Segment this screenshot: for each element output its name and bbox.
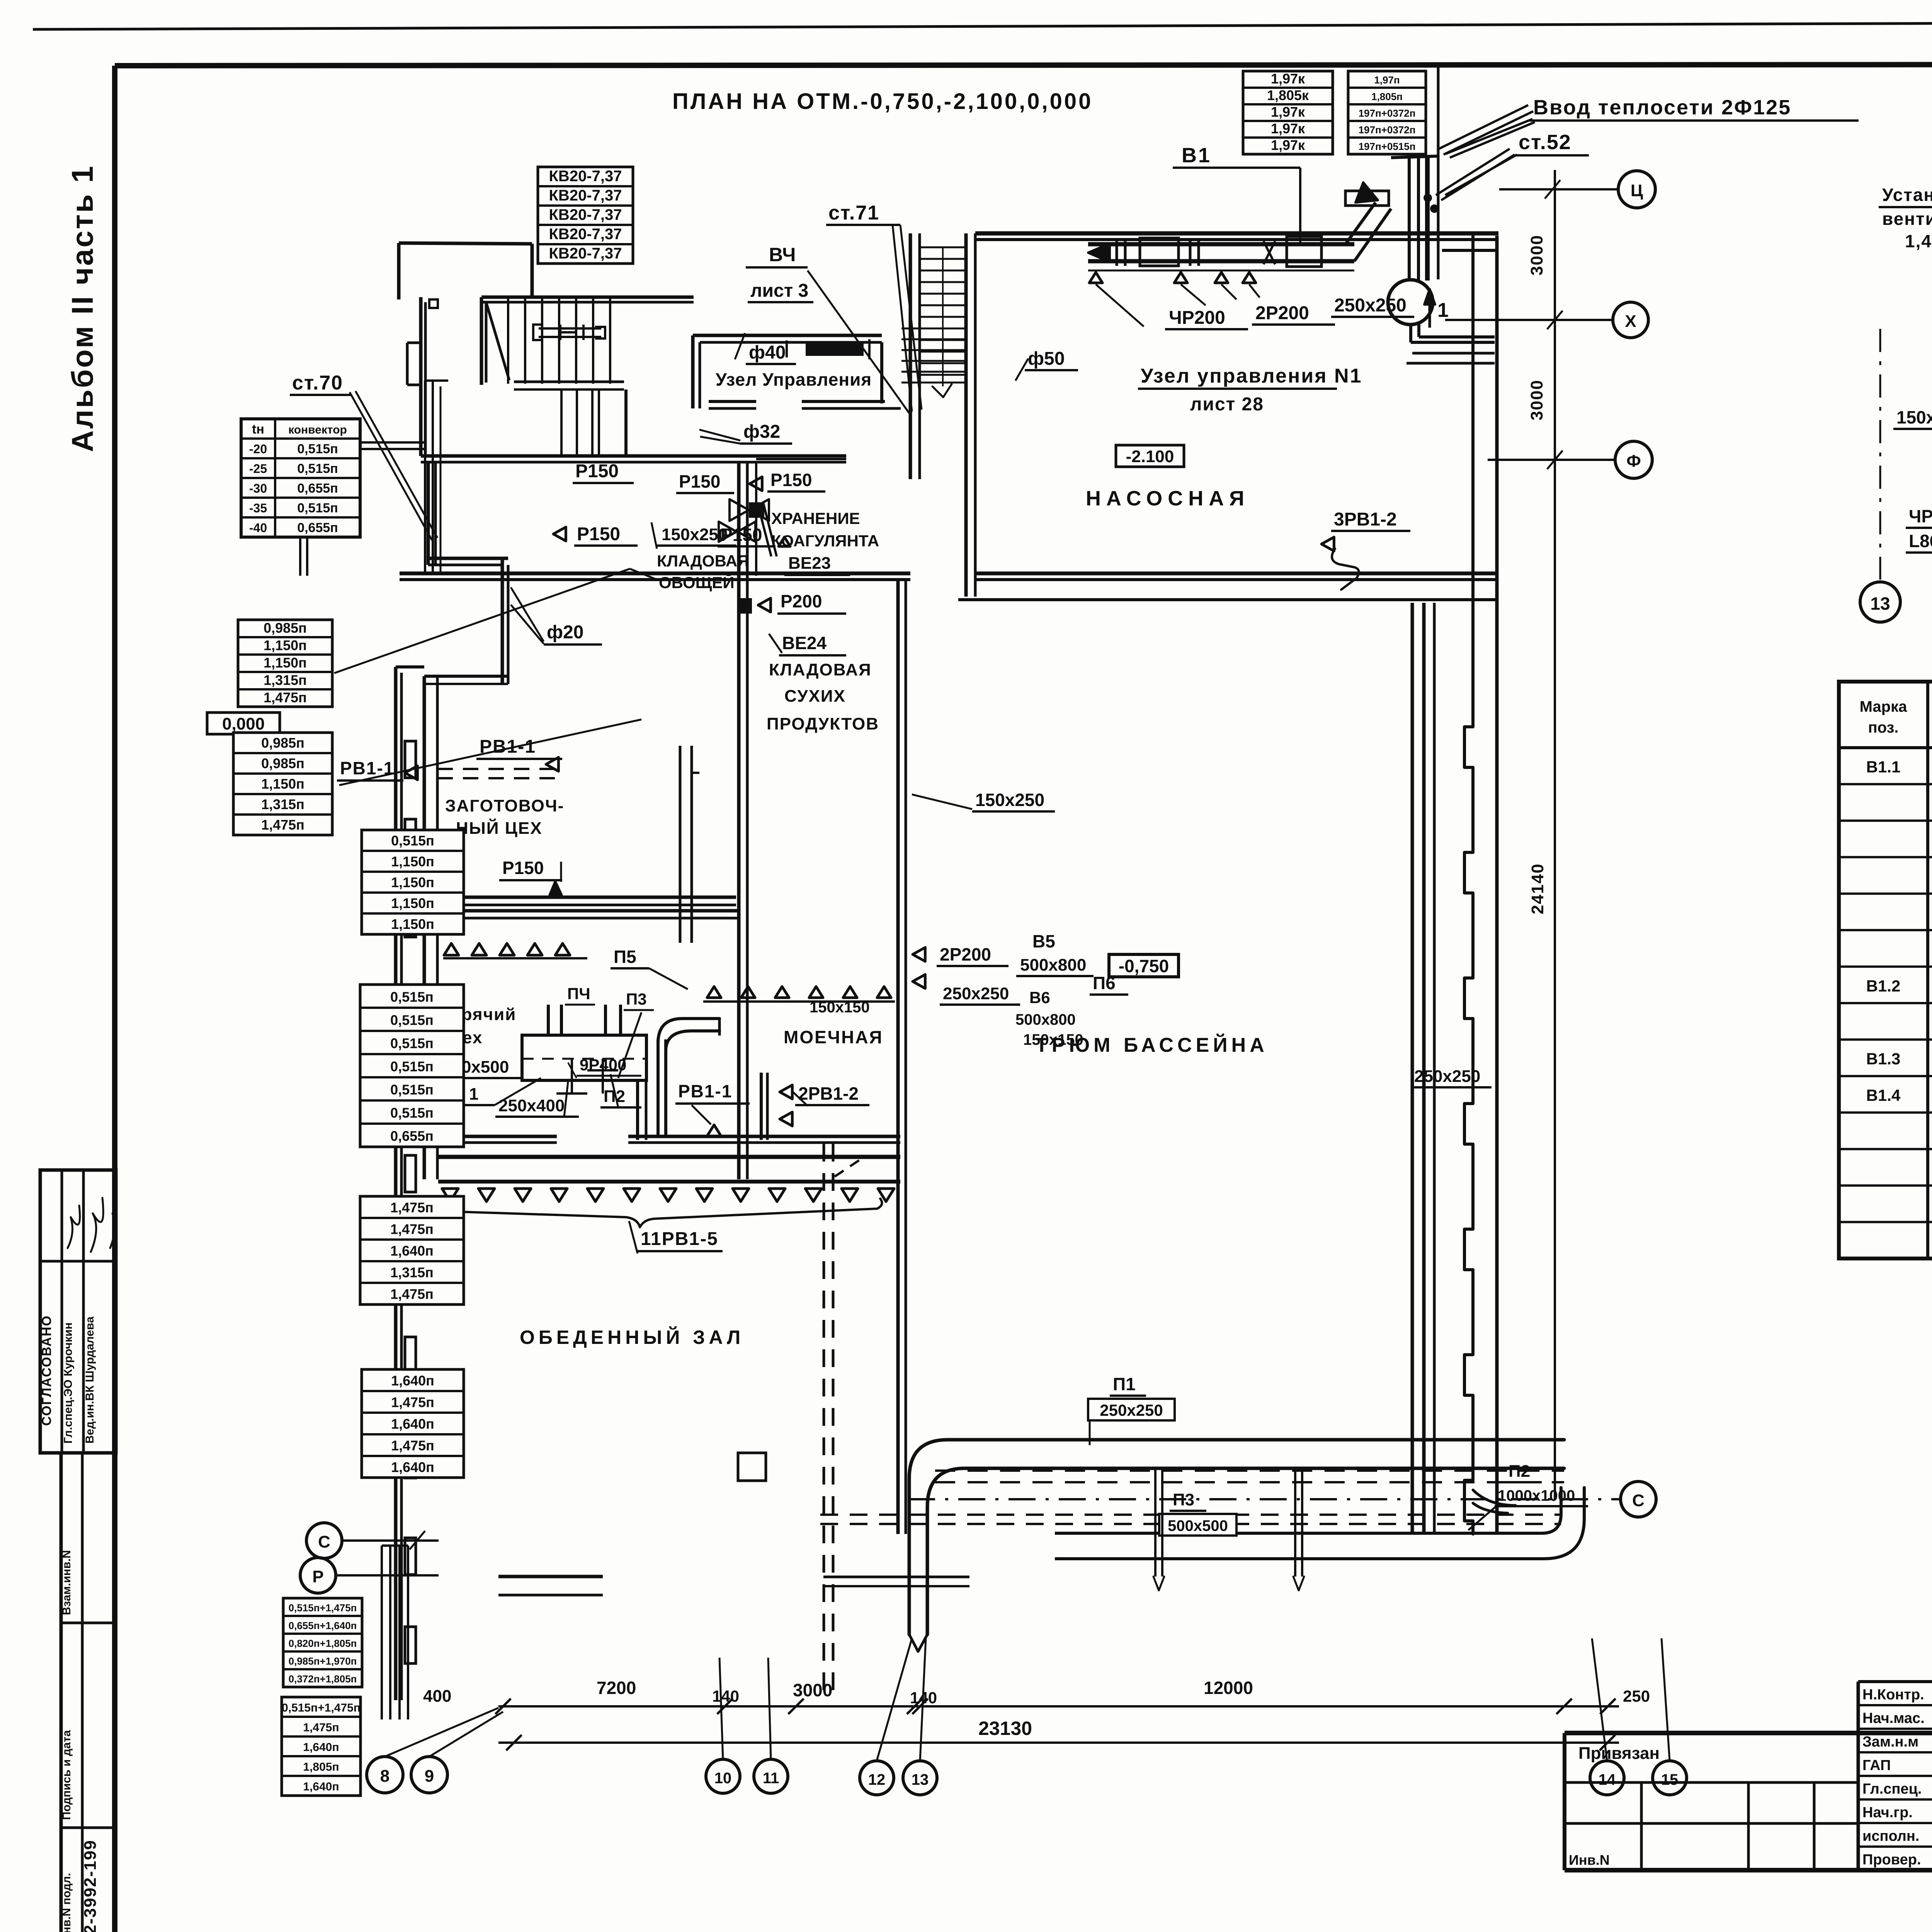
grid circle 12 bbox=[860, 1638, 912, 1795]
svg-text:0,655п+1,640п: 0,655п+1,640п bbox=[289, 1620, 357, 1631]
svg-text:1,475п: 1,475п bbox=[391, 1394, 434, 1410]
corridor wall below top block bbox=[421, 297, 846, 462]
label П2 1000x1000 bbox=[1468, 1462, 1588, 1530]
svg-text:ОВОЩЕЙ: ОВОЩЕЙ bbox=[659, 573, 735, 592]
svg-text:0,985п+1,970п: 0,985п+1,970п bbox=[289, 1655, 357, 1667]
label ф32 bbox=[699, 422, 792, 444]
svg-text:ф50: ф50 bbox=[1028, 349, 1065, 369]
svg-text:1,640п: 1,640п bbox=[391, 1372, 434, 1388]
label ф50 bbox=[1015, 349, 1078, 381]
duct П1 dashed centerlines bbox=[935, 1471, 1564, 1482]
door bracket top-left bbox=[407, 299, 438, 385]
svg-text:1000x1000: 1000x1000 bbox=[1498, 1487, 1575, 1504]
svg-text:ПРОДУКТОВ: ПРОДУКТОВ bbox=[767, 714, 879, 733]
label 250x250 pool duct bbox=[1411, 1067, 1492, 1087]
svg-text:-20: -20 bbox=[249, 442, 267, 456]
svg-text:КВ20-7,37: КВ20-7,37 bbox=[549, 206, 622, 223]
svg-text:ст.52: ст.52 bbox=[1519, 131, 1571, 154]
svg-text:РВ1-1: РВ1-1 bbox=[678, 1081, 732, 1101]
value table group 2 bbox=[233, 733, 332, 835]
svg-text:9: 9 bbox=[425, 1767, 434, 1786]
svg-text:1,475п: 1,475п bbox=[391, 1437, 434, 1453]
riser marks under П1 bbox=[1153, 1470, 1304, 1590]
label Р200 with arrow bbox=[739, 591, 846, 614]
svg-text:СУХИХ: СУХИХ bbox=[784, 687, 846, 706]
supply unit box П1 П2 bbox=[522, 1035, 646, 1094]
label В6 500x800 150x150 bbox=[810, 988, 1083, 1048]
label 2Р200 bbox=[1252, 303, 1335, 325]
duct risers above box bbox=[548, 1005, 621, 1036]
storage partition wall bbox=[624, 389, 628, 456]
svg-text:150x250: 150x250 bbox=[975, 790, 1044, 810]
svg-text:12: 12 bbox=[868, 1771, 886, 1788]
svg-text:КОАГУЛЯНТА: КОАГУЛЯНТА bbox=[771, 532, 879, 550]
dining hall bottom walls bbox=[382, 1546, 603, 1719]
label Узел Управления bbox=[716, 369, 872, 389]
svg-text:11РВ1-5: 11РВ1-5 bbox=[641, 1229, 718, 1249]
svg-text:В1: В1 bbox=[1182, 144, 1211, 167]
svg-text:0,515п+1,475п: 0,515п+1,475п bbox=[282, 1702, 361, 1714]
svg-text:ВЧ: ВЧ bbox=[769, 244, 796, 265]
svg-text:ПЧ: ПЧ bbox=[567, 985, 590, 1003]
value table К group top 1 bbox=[1243, 71, 1333, 154]
table tн/конвектор bbox=[241, 419, 360, 537]
svg-text:1: 1 bbox=[1437, 299, 1449, 321]
svg-text:0,655п: 0,655п bbox=[297, 520, 338, 535]
label П1 250x250 bbox=[1088, 1374, 1175, 1445]
svg-text:23130: 23130 bbox=[978, 1718, 1032, 1739]
svg-text:КВ20-7,37: КВ20-7,37 bbox=[549, 226, 622, 243]
grid circle 11 bbox=[754, 1658, 788, 1793]
svg-text:0,515п: 0,515п bbox=[297, 442, 338, 456]
svg-text:1,315п: 1,315п bbox=[264, 672, 307, 688]
grid circle 15 bbox=[1653, 1638, 1687, 1795]
pump room top wall bbox=[975, 233, 1498, 240]
svg-text:0,820п+1,805п: 0,820п+1,805п bbox=[289, 1638, 357, 1649]
svg-text:КВ20-7,37: КВ20-7,37 bbox=[549, 245, 622, 262]
svg-text:ст.70: ст.70 bbox=[292, 372, 343, 394]
specification table bbox=[1839, 682, 1932, 1275]
kitchen inner partition walls bbox=[638, 1073, 864, 1177]
leader lines ст.70 bbox=[350, 391, 437, 540]
bracket 11РВ1-5 bbox=[444, 1199, 882, 1253]
svg-text:Р150: Р150 bbox=[770, 470, 812, 490]
svg-text:15: 15 bbox=[1661, 1771, 1679, 1788]
svg-text:1,97к: 1,97к bbox=[1271, 104, 1305, 120]
svg-text:Инв.N: Инв.N bbox=[1569, 1852, 1610, 1868]
svg-text:В1.3: В1.3 bbox=[1866, 1050, 1901, 1068]
svg-text:ПЛАН НА ОТМ.-0,750,-2,100,0,00: ПЛАН НА ОТМ.-0,750,-2,100,0,000 bbox=[672, 89, 1093, 114]
heating pipes top-left bbox=[300, 381, 448, 576]
svg-text:Р200: Р200 bbox=[781, 591, 822, 611]
svg-text:лист 3: лист 3 bbox=[750, 281, 808, 301]
left stamp box upper (approvals) bbox=[39, 1170, 116, 1453]
label Р150 upper-b bbox=[676, 471, 734, 493]
svg-text:Инв.N подл.: Инв.N подл. bbox=[60, 1873, 73, 1932]
привязан box bbox=[1565, 1682, 1858, 1870]
svg-text:250x250: 250x250 bbox=[943, 984, 1009, 1003]
svg-text:-25: -25 bbox=[249, 462, 267, 476]
top-left staircase hatch bbox=[481, 297, 624, 456]
duct transition to shaft bbox=[1345, 182, 1391, 261]
label 150x250 mid bbox=[912, 790, 1055, 811]
room label ТРЮМ БАССЕЙНА bbox=[1036, 1034, 1268, 1056]
supply triangles row моечная bbox=[703, 986, 895, 1002]
svg-text:1,150п: 1,150п bbox=[391, 895, 434, 911]
svg-text:1,150п: 1,150п bbox=[264, 655, 307, 670]
svg-text:150x250: 150x250 bbox=[1896, 407, 1932, 427]
section label ЧР200 bbox=[1906, 506, 1932, 553]
value table group 6 bbox=[362, 1369, 464, 1478]
section mark 1 right bbox=[1424, 289, 1449, 328]
axis circle Ф bbox=[1488, 441, 1652, 478]
dining hall upper wall bbox=[438, 1136, 900, 1143]
label 250x250 mid bbox=[940, 984, 1020, 1005]
svg-text:150x150: 150x150 bbox=[810, 999, 870, 1016]
svg-text:197п+0372п: 197п+0372п bbox=[1359, 107, 1416, 119]
small equipment square dining hall bbox=[738, 1453, 766, 1481]
svg-text:0,515п: 0,515п bbox=[390, 1105, 434, 1121]
svg-text:РВ1-1: РВ1-1 bbox=[340, 758, 394, 778]
svg-text:П1: П1 bbox=[1113, 1374, 1136, 1394]
pool top divider walls bbox=[400, 573, 1498, 600]
svg-text:L866: L866 bbox=[1909, 531, 1932, 551]
duct П3 dashed lines bbox=[820, 1515, 1561, 1524]
svg-text:Подпись и дата: Подпись и дата bbox=[60, 1730, 73, 1820]
label П5 bbox=[611, 947, 688, 989]
svg-text:1,475п: 1,475п bbox=[390, 1199, 434, 1215]
label Р150 upper-c bbox=[750, 470, 825, 492]
svg-text:250x250: 250x250 bbox=[1100, 1401, 1163, 1419]
svg-text:П5: П5 bbox=[614, 947, 636, 967]
label 2РВ1-2 with triangles bbox=[780, 1083, 869, 1126]
plan title bbox=[672, 89, 1093, 114]
svg-text:0,985п: 0,985п bbox=[261, 735, 304, 751]
svg-text:ф40: ф40 bbox=[749, 342, 786, 363]
label В1 with leader bbox=[1173, 144, 1300, 243]
svg-text:0,515п: 0,515п bbox=[390, 989, 434, 1005]
svg-text:Альбом II часть 1: Альбом II часть 1 bbox=[65, 165, 99, 452]
svg-text:ф32: ф32 bbox=[743, 422, 780, 442]
svg-text:197п+0372п: 197п+0372п bbox=[1359, 124, 1416, 136]
svg-text:10: 10 bbox=[714, 1770, 732, 1787]
svg-text:0,655п: 0,655п bbox=[390, 1128, 434, 1144]
svg-text:3РВ1-2: 3РВ1-2 bbox=[1334, 509, 1397, 530]
label РВ1-1 first bbox=[476, 736, 562, 771]
value table group 4 bbox=[360, 985, 464, 1147]
svg-text:7200: 7200 bbox=[597, 1678, 636, 1698]
section centerline with circle 13 bbox=[1860, 329, 1900, 622]
svg-text:150x250: 150x250 bbox=[662, 525, 728, 544]
svg-text:С: С bbox=[1632, 1491, 1645, 1510]
label 250x400 bbox=[495, 1082, 579, 1117]
top-left block walls bbox=[399, 243, 694, 302]
label ф20 bbox=[511, 587, 602, 645]
svg-text:400: 400 bbox=[423, 1687, 451, 1706]
svg-text:12000: 12000 bbox=[1204, 1678, 1253, 1698]
svg-text:1,805п: 1,805п bbox=[1371, 91, 1403, 102]
svg-text:250: 250 bbox=[1623, 1687, 1650, 1705]
axis circle Ц bbox=[1499, 171, 1655, 208]
grille row dining hall bbox=[442, 1189, 894, 1202]
svg-text:ЧР200: ЧР200 bbox=[1169, 308, 1225, 328]
svg-text:Х: Х bbox=[1625, 312, 1636, 331]
svg-text:3000: 3000 bbox=[1527, 235, 1546, 276]
label В5 500x800 bbox=[1016, 931, 1094, 976]
radiator marks on left wall bbox=[405, 741, 416, 1663]
svg-text:500x800: 500x800 bbox=[1015, 1011, 1076, 1028]
svg-text:МОЕЧНАЯ: МОЕЧНАЯ bbox=[784, 1027, 883, 1047]
vertical duct 150x250 right of заготовочный bbox=[680, 746, 699, 943]
label П3 500x500 bbox=[1159, 1490, 1236, 1536]
svg-text:Р150: Р150 bbox=[575, 461, 619, 481]
axis circle Р left bbox=[300, 1558, 439, 1593]
svg-text:1,475п: 1,475п bbox=[261, 817, 304, 833]
svg-text:1,150п: 1,150п bbox=[391, 916, 434, 932]
walls below заготовочный цех bbox=[424, 897, 739, 918]
svg-text:0,515п+1,475п: 0,515п+1,475п bbox=[289, 1602, 357, 1614]
label РВ1-1 margin bbox=[337, 758, 417, 781]
svg-text:КВ20-7,37: КВ20-7,37 bbox=[549, 168, 622, 185]
svg-text:1,805к: 1,805к bbox=[1267, 87, 1309, 103]
level box -0,750 bbox=[1109, 954, 1179, 977]
label горячий цех bbox=[443, 1005, 516, 1047]
label ф40 bbox=[735, 333, 796, 364]
svg-text:24140: 24140 bbox=[1528, 863, 1547, 914]
svg-text:Привязан: Привязан bbox=[1578, 1744, 1660, 1763]
vertical dimension line right bbox=[1527, 170, 1555, 1499]
svg-text:0,372п+1,805п: 0,372п+1,805п bbox=[289, 1673, 357, 1685]
svg-text:1,97п: 1,97п bbox=[1374, 74, 1400, 86]
vertical duct left of pool bottom arrow bbox=[909, 1634, 927, 1651]
svg-text:Н.Контр.: Н.Контр. bbox=[1862, 1687, 1924, 1703]
label МОЕЧНАЯ bbox=[784, 1027, 883, 1047]
dimension line 1 bbox=[495, 1699, 1619, 1714]
label РВ1-1 third with triangle bbox=[675, 1081, 750, 1136]
svg-text:1,315п: 1,315п bbox=[261, 796, 304, 812]
level box -2.100 bbox=[1116, 445, 1184, 467]
svg-text:8: 8 bbox=[380, 1767, 389, 1786]
svg-text:П2: П2 bbox=[1509, 1462, 1530, 1481]
svg-text:tн: tн bbox=[252, 422, 264, 437]
diagonal leader ф20 upper bbox=[334, 569, 657, 673]
svg-text:-30: -30 bbox=[249, 481, 267, 495]
svg-text:1,475п: 1,475п bbox=[390, 1286, 434, 1302]
svg-text:1,475п: 1,475п bbox=[264, 689, 307, 705]
svg-text:1,805п: 1,805п bbox=[303, 1761, 339, 1774]
svg-text:Ввод теплосети 2Ф125: Ввод теплосети 2Ф125 bbox=[1533, 96, 1791, 119]
svg-text:-35: -35 bbox=[249, 501, 267, 515]
label ОБЕДЕННЫЙ ЗАЛ bbox=[520, 1326, 744, 1348]
svg-text:2Р200: 2Р200 bbox=[1255, 303, 1309, 323]
svg-text:0,515п: 0,515п bbox=[390, 1035, 434, 1051]
svg-text:Взам.инв.N: Взам.инв.N bbox=[60, 1550, 73, 1615]
axis circle С left bbox=[306, 1523, 439, 1558]
svg-text:0,515п: 0,515п bbox=[391, 833, 434, 849]
svg-text:Гл.спец.ЭО Курочкин: Гл.спец.ЭО Курочкин bbox=[62, 1322, 75, 1444]
section note Установка и крепление bbox=[1879, 185, 1932, 340]
svg-text:Гл.спец.: Гл.спец. bbox=[1862, 1781, 1922, 1797]
axis circle Х bbox=[1445, 302, 1648, 338]
dining hall heavy wall bbox=[438, 1157, 900, 1182]
kitchen right wall bbox=[739, 463, 756, 1179]
label Р150 mid-d bbox=[718, 525, 790, 546]
label Р150 upper-a bbox=[573, 461, 634, 483]
central staircase walls bbox=[910, 233, 975, 597]
svg-text:конвектор: конвектор bbox=[288, 423, 347, 436]
svg-text:1,150п: 1,150п bbox=[261, 776, 304, 792]
grid circle 14 bbox=[1590, 1638, 1624, 1795]
vertical duct моечная bbox=[658, 1019, 719, 1136]
svg-text:ЗАГОТОВОЧ-: ЗАГОТОВОЧ- bbox=[445, 796, 564, 815]
value table К group top 2 bbox=[1348, 71, 1426, 154]
label 2Р200 mid with triangles bbox=[913, 944, 1009, 988]
left stamp box lower (inventory) bbox=[60, 1453, 114, 1932]
svg-text:0,655п: 0,655п bbox=[297, 481, 338, 496]
level box 0,000 bbox=[207, 713, 280, 734]
svg-text:0,515п: 0,515п bbox=[297, 501, 338, 515]
svg-text:1,150п: 1,150п bbox=[264, 637, 307, 653]
pool left wall bbox=[898, 580, 906, 1534]
svg-text:КВ20-7,37: КВ20-7,37 bbox=[549, 187, 622, 204]
svg-text:14: 14 bbox=[1599, 1771, 1616, 1788]
svg-text:1,640п: 1,640п bbox=[391, 1459, 434, 1475]
svg-text:1,475п: 1,475п bbox=[390, 1221, 434, 1237]
svg-text:ВЕ24: ВЕ24 bbox=[782, 633, 827, 653]
table КВ20-7,37 bbox=[538, 167, 633, 264]
valve symbols Р150 bbox=[719, 499, 769, 542]
section label 150x250 bbox=[1893, 407, 1932, 431]
svg-text:2РВ1-2: 2РВ1-2 bbox=[798, 1083, 859, 1104]
svg-text:2-3992-199: 2-3992-199 bbox=[81, 1840, 100, 1932]
svg-text:1,150п: 1,150п bbox=[391, 854, 434, 869]
svg-text:исполн.: исполн. bbox=[1862, 1828, 1919, 1844]
label ЗАГОТОВОЧНЫЙ ЦЕХ bbox=[445, 796, 564, 838]
svg-text:В5: В5 bbox=[1032, 931, 1055, 951]
svg-text:250x400: 250x400 bbox=[498, 1096, 565, 1115]
svg-text:ГАП: ГАП bbox=[1862, 1757, 1891, 1774]
inlet pipes 2Ф125 diagonal bbox=[1436, 105, 1533, 200]
svg-text:ВЕ23: ВЕ23 bbox=[788, 554, 831, 573]
svg-text:Узел управления N1: Узел управления N1 bbox=[1141, 365, 1362, 387]
dashed grille line bbox=[437, 769, 564, 778]
svg-text:Нач.гр.: Нач.гр. bbox=[1862, 1804, 1913, 1821]
room label НАСОСНАЯ bbox=[1086, 487, 1250, 510]
svg-text:ХРАНЕНИЕ: ХРАНЕНИЕ bbox=[771, 509, 860, 527]
svg-text:1,494-30: 1,494-30 bbox=[1905, 231, 1932, 251]
svg-text:1,97к: 1,97к bbox=[1271, 71, 1305, 87]
label ст.52 bbox=[1445, 131, 1589, 195]
svg-text:Узел Управления: Узел Управления bbox=[716, 369, 872, 389]
svg-text:вентилятора по серии: вентилятора по серии bbox=[1882, 209, 1932, 229]
svg-text:13: 13 bbox=[1870, 594, 1890, 614]
lower corridor wall piece bbox=[823, 1577, 969, 1586]
svg-text:-40: -40 bbox=[249, 521, 267, 535]
svg-text:Р150: Р150 bbox=[679, 471, 720, 492]
svg-text:Установка и крепление: Установка и крепление bbox=[1882, 185, 1932, 205]
svg-text:2Р200: 2Р200 bbox=[940, 944, 991, 964]
svg-text:13: 13 bbox=[912, 1771, 929, 1788]
personnel table grid bbox=[1858, 1682, 1932, 1870]
svg-text:ОБЕДЕННЫЙ ЗАЛ: ОБЕДЕННЫЙ ЗАЛ bbox=[520, 1326, 744, 1348]
duct П2 elbow at pool wall bbox=[1473, 1490, 1515, 1513]
svg-text:поз.: поз. bbox=[1868, 719, 1898, 736]
svg-text:1,640п: 1,640п bbox=[390, 1243, 434, 1259]
svg-text:1,315п: 1,315п bbox=[390, 1264, 434, 1280]
label 250x250 top bbox=[1331, 295, 1414, 317]
svg-text:-0,750: -0,750 bbox=[1119, 956, 1169, 976]
svg-text:Ф: Ф bbox=[1626, 452, 1641, 471]
svg-text:1,150п: 1,150п bbox=[391, 874, 434, 890]
labels ПЧ П3 9Р400 bbox=[565, 985, 654, 1078]
diagonal leader lower bbox=[339, 719, 641, 785]
svg-text:-2.100: -2.100 bbox=[1126, 447, 1174, 466]
label ХРАНЕНИЕ КОАГУЛЯНТА ВЕ23 bbox=[757, 502, 879, 575]
svg-text:КЛАДОВАЯ: КЛАДОВАЯ bbox=[657, 552, 749, 570]
svg-text:КЛАДОВАЯ: КЛАДОВАЯ bbox=[769, 660, 872, 679]
title block bottom line bbox=[1565, 1702, 1932, 1870]
label КЛАДОВАЯ ОВОЩЕЙ bbox=[657, 552, 749, 592]
grid circle 9 bbox=[411, 1712, 503, 1793]
dimension texts bbox=[423, 1678, 1650, 1739]
svg-text:Вед.ин.ВК Шурдалева: Вед.ин.ВК Шурдалева bbox=[83, 1316, 96, 1444]
label П6 bbox=[1090, 973, 1128, 995]
svg-text:Р150: Р150 bbox=[502, 858, 544, 878]
svg-text:В6: В6 bbox=[1029, 988, 1050, 1007]
svg-text:Зам.н.м: Зам.н.м bbox=[1862, 1734, 1918, 1750]
label 250x500 П1 bbox=[440, 1058, 541, 1105]
central staircase treads bbox=[901, 247, 966, 397]
svg-text:1,97к: 1,97к bbox=[1271, 121, 1305, 136]
sheet top edge line bbox=[33, 21, 1932, 29]
svg-text:лист 28: лист 28 bbox=[1190, 394, 1264, 415]
svg-text:197п+0515п: 197п+0515п bbox=[1359, 141, 1416, 152]
grid circle 8 bbox=[367, 1708, 498, 1793]
album title text bbox=[65, 165, 99, 452]
svg-text:1,640п: 1,640п bbox=[303, 1781, 339, 1793]
title block main horizontal line bbox=[1565, 1731, 1932, 1735]
svg-text:0,515п: 0,515п bbox=[390, 1082, 434, 1097]
dimension line 2 bbox=[498, 1735, 1619, 1750]
label ст.71 with leaders bbox=[826, 202, 922, 412]
supply duct В1 horizontal bbox=[1088, 156, 1427, 281]
dining hall dashed partition bbox=[824, 1144, 833, 1692]
svg-text:ф20: ф20 bbox=[547, 622, 583, 643]
svg-text:1,640п: 1,640п bbox=[391, 1416, 434, 1432]
svg-text:ТРЮМ БАССЕЙНА: ТРЮМ БАССЕЙНА bbox=[1036, 1034, 1268, 1056]
svg-text:250x250: 250x250 bbox=[1334, 295, 1406, 316]
supply triangles row кухня bbox=[443, 944, 587, 958]
svg-text:В1.1: В1.1 bbox=[1866, 758, 1901, 776]
value table group 8 bbox=[282, 1697, 361, 1796]
label Ввод теплосети bbox=[1446, 96, 1859, 158]
svg-text:Провер.: Провер. bbox=[1862, 1852, 1921, 1868]
control unit room walls bbox=[693, 335, 901, 408]
svg-text:С: С bbox=[318, 1532, 330, 1551]
grid circle 13 bbox=[903, 1638, 937, 1795]
svg-text:3000: 3000 bbox=[1527, 379, 1546, 420]
label ЧР200 bbox=[1165, 308, 1248, 329]
svg-text:500x500: 500x500 bbox=[1168, 1517, 1228, 1534]
duct right of fan bbox=[1442, 240, 1497, 250]
value table group 3 bbox=[362, 830, 464, 934]
value table group 7 combined bbox=[283, 1598, 362, 1687]
svg-text:250x250: 250x250 bbox=[1414, 1067, 1480, 1086]
duct П1 long horizontal bbox=[909, 1440, 1564, 1634]
svg-text:1,97к: 1,97к bbox=[1271, 137, 1305, 153]
svg-text:3000: 3000 bbox=[793, 1680, 832, 1700]
svg-text:ЧР200: ЧР200 bbox=[1909, 506, 1932, 526]
